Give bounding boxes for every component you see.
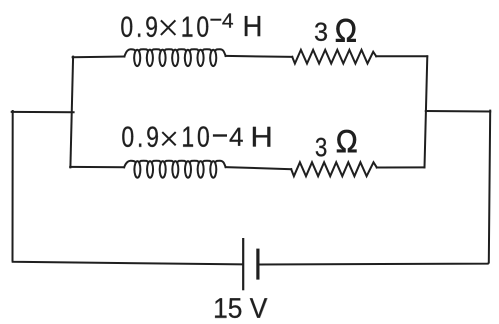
label L2 superscript minus — [214, 134, 226, 136]
inductor L1 loops — [134, 50, 216, 66]
wire: row2 left rail to inductor L2 — [70, 166, 124, 168]
wire: mid-right horizontal from right rail to outer right — [426, 110, 490, 113]
wire: row2 inductor L2 to resistor R2 — [226, 167, 292, 169]
label R1 value 3 ohm — [315, 19, 356, 42]
wire: row2 resistor R2 to right rail — [377, 166, 425, 168]
node B: right rail (joins parallel branches) — [425, 56, 428, 167]
label L1 superscript minus — [211, 19, 220, 21]
wire: row1 resistor R1 to right rail — [376, 55, 427, 57]
label battery 15 V — [215, 298, 267, 318]
battery B1 long plate (positive) — [242, 238, 244, 290]
wire: row1 left rail to inductor L1 — [73, 56, 125, 59]
label R2 value 3 ohm — [316, 130, 357, 156]
wire: mid-left horizontal from outer loop to left rail — [12, 111, 74, 113]
label L2 value 0.9x10^-4 H — [122, 126, 270, 147]
label L2 multiplication sign — [163, 133, 175, 145]
resistor R2 zigzag — [291, 162, 377, 176]
wire: right outer vertical + bottom-right run to battery — [259, 111, 490, 265]
resistor R1 zigzag — [292, 50, 376, 64]
wire: left outer vertical + bottom-left run to battery — [13, 111, 244, 264]
battery B1 short plate (negative) — [256, 249, 259, 280]
wire: row1 inductor L1 to resistor R1 — [226, 56, 293, 57]
inductor L1 humps — [124, 49, 225, 56]
inductor L2 humps — [124, 161, 226, 168]
node A: left rail (joins parallel branches) — [70, 57, 73, 168]
inductor L2 loops — [134, 161, 216, 178]
label L1 multiplication sign — [162, 21, 175, 34]
label L1 value 0.9x10^-4 H — [121, 14, 260, 37]
